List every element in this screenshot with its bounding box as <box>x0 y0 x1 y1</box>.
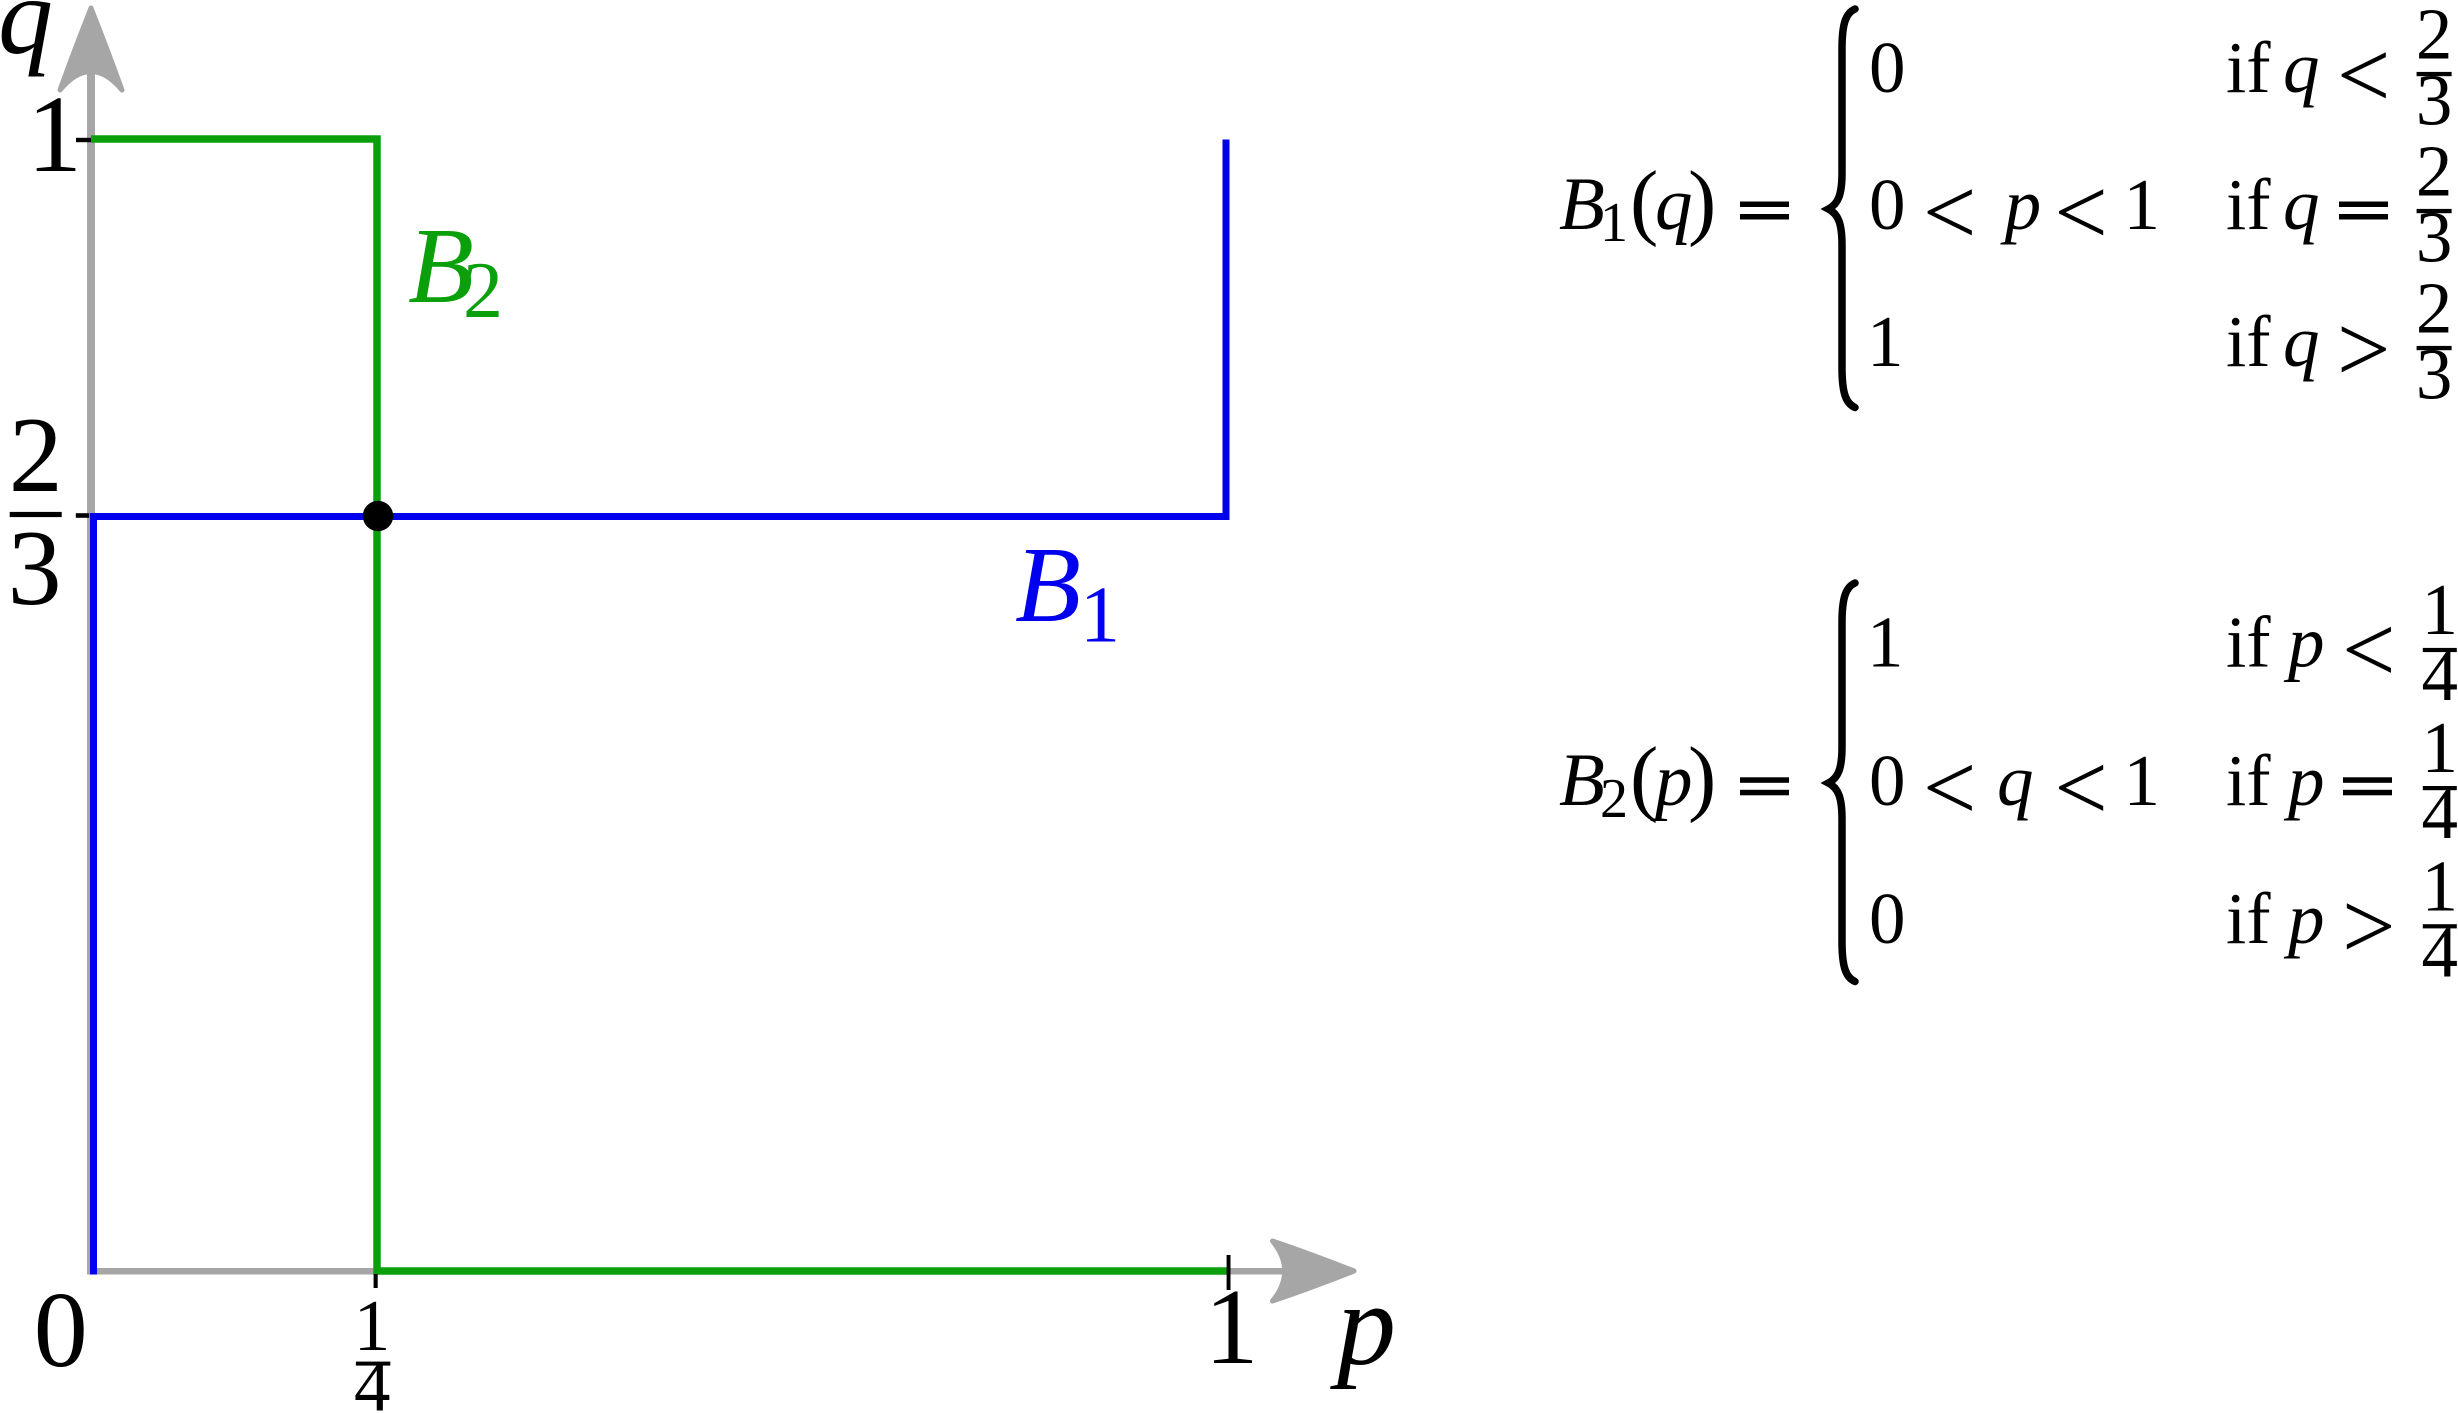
svg-text:if: if <box>2226 602 2271 683</box>
svg-text:>: > <box>2337 296 2391 402</box>
svg-text:if: if <box>2226 878 2271 959</box>
svg-text:1: 1 <box>27 73 82 195</box>
svg-text:<: < <box>1923 159 1977 265</box>
svg-text:q: q <box>2283 27 2320 108</box>
svg-text:1: 1 <box>1867 602 1904 683</box>
svg-text:1: 1 <box>1867 301 1904 382</box>
svg-text:if: if <box>2226 301 2271 382</box>
svg-text:if: if <box>2226 740 2271 821</box>
green best-response curve B2 <box>91 139 1230 1271</box>
svg-text:): ) <box>1688 154 1716 248</box>
svg-text:1: 1 <box>1205 1268 1259 1387</box>
svg-text:p: p <box>2283 602 2325 683</box>
svg-text:2: 2 <box>463 247 503 335</box>
svg-text:0: 0 <box>1869 164 1906 245</box>
svg-text:3: 3 <box>2416 196 2453 277</box>
svg-text:2: 2 <box>9 396 63 515</box>
equilibrium dot <box>363 501 393 531</box>
svg-text:<: < <box>2054 735 2108 841</box>
svg-text:q: q <box>2283 164 2320 245</box>
svg-text:<: < <box>1923 735 1977 841</box>
x-axis arrowhead <box>1273 1241 1355 1301</box>
svg-text:q: q <box>1655 163 1693 246</box>
svg-text:1: 1 <box>2124 164 2161 245</box>
tick x=1/4 <box>374 1274 378 1288</box>
svg-text:p: p <box>1650 739 1693 822</box>
svg-text:p: p <box>2283 740 2325 821</box>
svg-text:0: 0 <box>34 1271 88 1390</box>
x-axis (gray) <box>87 1268 1292 1275</box>
svg-text:p: p <box>2283 878 2325 959</box>
svg-text:4: 4 <box>354 1346 391 1413</box>
svg-text:3: 3 <box>2416 333 2453 414</box>
svg-text:<: < <box>2342 597 2396 703</box>
svg-text:B: B <box>1015 526 1081 645</box>
svg-text:B: B <box>1559 739 1605 822</box>
curve label B2 (green) <box>408 207 503 335</box>
y-axis arrowhead <box>60 8 122 90</box>
blue best-response curve B1 <box>94 140 1227 1275</box>
y-axis (gray) <box>87 40 95 1275</box>
svg-text:p: p <box>1330 1259 1396 1390</box>
svg-text:0: 0 <box>1869 27 1906 108</box>
svg-text:4: 4 <box>2421 773 2458 854</box>
brace <box>1829 583 1856 982</box>
svg-text:B: B <box>1559 163 1605 246</box>
svg-text:4: 4 <box>2421 911 2458 992</box>
tick y=2/3 <box>76 513 89 518</box>
curve label B1 (blue) <box>1015 526 1120 660</box>
svg-text:0: 0 <box>1869 740 1906 821</box>
svg-text:q: q <box>0 0 53 77</box>
svg-text:4: 4 <box>2421 635 2458 716</box>
brace <box>1829 9 1856 408</box>
svg-text:1: 1 <box>2124 740 2161 821</box>
tick y=1 <box>76 138 91 142</box>
svg-text:1: 1 <box>1080 572 1120 660</box>
svg-text:<: < <box>2337 22 2391 128</box>
svg-text:if: if <box>2226 27 2271 108</box>
svg-text:>: > <box>2342 873 2396 979</box>
svg-text:0: 0 <box>1869 878 1906 959</box>
svg-text:): ) <box>1688 730 1716 824</box>
svg-text:3: 3 <box>8 509 62 628</box>
svg-text:2: 2 <box>1600 768 1628 830</box>
svg-text:q: q <box>1997 740 2034 821</box>
svg-text:<: < <box>2054 159 2108 265</box>
svg-text:3: 3 <box>2416 59 2453 140</box>
tick x=1 <box>1227 1255 1231 1290</box>
svg-text:p: p <box>2000 164 2042 245</box>
svg-text:q: q <box>2283 301 2320 382</box>
svg-text:1: 1 <box>1600 192 1628 254</box>
svg-text:if: if <box>2226 164 2271 245</box>
